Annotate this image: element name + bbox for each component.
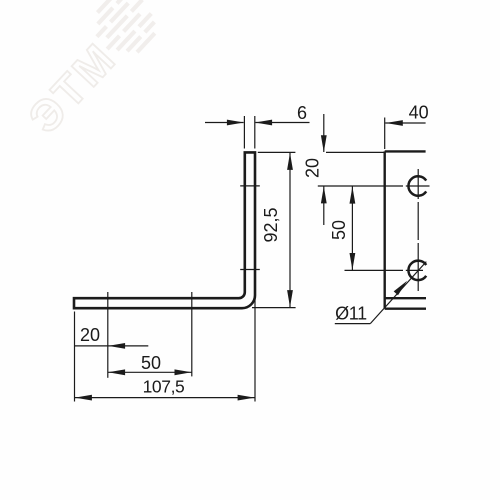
leader line O11 underline — [335, 323, 371, 325]
extension line above plate left edge (dim 40) — [384, 118, 386, 150]
svg-text:50: 50 — [329, 220, 349, 240]
arrow 50 right view top (points up) — [350, 187, 356, 204]
arrow 20 bottom (points left at x=107.8) — [108, 343, 125, 349]
plate top edge — [385, 150, 426, 152]
dimension line 6 right segment — [255, 122, 309, 124]
extension line x=255 below corner — [254, 296, 256, 402]
dimension line 92,5 — [289, 152, 291, 307]
arrow dim6 left (points right at x=244.2) — [227, 120, 244, 126]
dimension line 107,5 bottom — [75, 397, 256, 399]
watermark ЭТМ logo — [13, 0, 167, 143]
leader line O11 diagonal — [370, 262, 426, 324]
dimension line 20 right view bottom tail — [323, 186, 325, 225]
extension line y=152.4 left of plate (dim 20) — [326, 151, 385, 153]
hole 1 circle (gap at right) — [408, 176, 426, 195]
svg-text:40: 40 — [409, 103, 429, 123]
extension line x=191.8 through leg — [191, 292, 193, 376]
dimension line 40 (cut off) — [385, 122, 425, 124]
arrow O11 leader (points up-right at hole edge) — [394, 279, 410, 296]
plate left edge — [384, 151, 386, 308]
arrow 50 bottom-right (points right) — [175, 369, 192, 375]
arrow 50 bottom-left (points left) — [108, 369, 125, 375]
holes vertical centerline — [417, 169, 419, 291]
part outline L-bracket side view — [74, 152, 255, 308]
arrow 92,5 top (points up) — [287, 153, 293, 170]
dimension line 50 right view — [351, 186, 353, 270]
hole position tick upper on vertical leg — [240, 185, 260, 187]
dimension line 20 right view top segment — [323, 114, 325, 152]
dimension line 50 bottom — [108, 371, 192, 373]
svg-text:20: 20 — [80, 325, 100, 345]
svg-text:ЭТМ: ЭТМ — [19, 33, 126, 142]
arrow 107,5 right (points right) — [238, 395, 255, 401]
extension line x=74.5 left — [74, 312, 76, 402]
bend line — [385, 297, 426, 299]
arrow 20 right view bottom (points up at y=186.2) — [321, 186, 327, 203]
hole 2 circle (gap at right) — [408, 261, 426, 280]
arrow 20 right view top (points down at y=152.4) — [321, 135, 327, 152]
plate bottom edge — [385, 308, 426, 310]
dimension line 20 bottom — [75, 345, 149, 347]
svg-text:Ø11: Ø11 — [335, 304, 367, 324]
hole position tick lower on vertical leg — [240, 269, 260, 271]
svg-text:20: 20 — [303, 158, 323, 178]
arrow 50 right view bottom (points down) — [350, 253, 356, 270]
dimension line 6 left segment — [205, 122, 244, 124]
arrow 92,5 bottom (points down) — [287, 290, 293, 307]
arrow dim6 right (points left at x=254.8) — [255, 120, 272, 126]
hole 1 horizontal centerline — [318, 185, 430, 187]
arrow 107,5 left (points left) — [75, 395, 92, 401]
extension line y=152.4 to the right of leg top — [258, 151, 296, 153]
svg-text:92,5: 92,5 — [261, 207, 281, 242]
extension line x=107.8 through leg — [107, 292, 109, 378]
extension line y=307.5 bottom right — [252, 307, 296, 309]
svg-text:107,5: 107,5 — [143, 377, 185, 397]
hole 2 horizontal centerline — [345, 269, 424, 271]
svg-text:50: 50 — [141, 353, 161, 373]
extension line x=254.8 for dim 6 — [254, 116, 256, 149]
svg-text:6: 6 — [297, 103, 307, 123]
arrow 40 (points left at plate left edge) — [386, 120, 403, 126]
extension line x=244.2 for dim 6 — [243, 116, 245, 149]
